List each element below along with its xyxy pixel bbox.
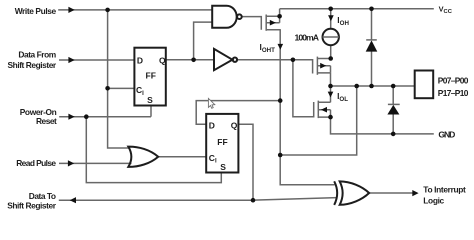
- arrow read pulse input: [68, 160, 74, 166]
- arrow data to output (left): [70, 197, 76, 203]
- wire Data To Shift Register line: [59, 198, 337, 201]
- svg-text:Read Pulse: Read Pulse: [16, 158, 56, 168]
- NAND gate U1: [212, 6, 237, 28]
- arrow to interrupt logic: [412, 190, 418, 196]
- current source chord: [323, 36, 339, 38]
- port box P07-P00: [415, 71, 434, 99]
- svg-text:FF: FF: [217, 137, 227, 147]
- svg-text:FF: FF: [146, 71, 156, 81]
- arrow I_OL current: [328, 92, 334, 98]
- junction dot diode D1 anode: [369, 84, 374, 89]
- wire POR down-leg to FF2 S: [86, 117, 221, 183]
- svg-text:D: D: [137, 56, 143, 66]
- diode D2 cathode bar: [388, 103, 400, 105]
- transistor Q2 body arrow: [320, 63, 326, 69]
- arrow I_OH current: [328, 15, 334, 21]
- svg-text:100mA: 100mA: [295, 33, 320, 43]
- wire FF1 Q to inverter input: [166, 59, 215, 61]
- inverter U2: [214, 49, 232, 70]
- svg-text:P07–P00: P07–P00: [438, 75, 469, 85]
- svg-text:Shift Register: Shift Register: [8, 60, 57, 70]
- svg-text:Logic: Logic: [423, 195, 444, 205]
- wire port line: [331, 85, 415, 87]
- transistor Q1 leads: [266, 16, 281, 29]
- XOR gate U4 input arc: [334, 181, 337, 205]
- junction dot Q3 source: [328, 115, 333, 120]
- arrow write pulse input: [68, 7, 74, 13]
- NAND output bubble: [237, 14, 242, 19]
- transistor Q3 body arrow: [321, 107, 327, 113]
- wire rail to current source top: [330, 9, 332, 29]
- wire GND clamp diode connections: [392, 86, 394, 134]
- diode D2 to GND: [387, 105, 399, 115]
- transistor Q1 body arrow: [270, 20, 276, 26]
- wire gate node to Q2 gate: [293, 60, 313, 74]
- wire current source bottom to Q2 drain: [330, 45, 332, 58]
- wire FF2 D tap from pin net: [196, 101, 280, 125]
- svg-text:S: S: [220, 162, 226, 172]
- flip-flop FF2 box: [206, 114, 238, 173]
- arrow POR input: [68, 114, 74, 120]
- wire FF1 Q up to NAND input 2: [194, 22, 213, 60]
- arrow data from input: [68, 57, 74, 63]
- arrow I_OHT current: [278, 44, 284, 50]
- transistor Q2 channel bar: [316, 57, 318, 75]
- wire inverter output to gate node: [237, 59, 293, 61]
- junction dot POR: [84, 114, 89, 119]
- wire Write Pulse lead: [58, 9, 212, 11]
- wire XOR output to interrupt arrow: [369, 192, 413, 194]
- svg-text:S: S: [147, 95, 153, 105]
- OR gate U3: [128, 147, 158, 167]
- inverter bubble: [233, 58, 237, 62]
- junction dot pin link: [278, 153, 283, 158]
- junction dot gate node: [291, 58, 296, 63]
- diode D1 cathode bar: [366, 39, 377, 41]
- junction dot data line: [251, 198, 256, 203]
- svg-text:Q: Q: [231, 120, 238, 130]
- svg-text:Shift Register: Shift Register: [7, 200, 57, 210]
- wire FF2 Q down to data line: [238, 124, 253, 200]
- wire Q1 source to VCC rail: [279, 9, 281, 16]
- wire Q2/Q3 junction to port line: [330, 73, 332, 102]
- wire Data From Shift Register to FF1 D: [59, 59, 134, 61]
- wire write-pulse drop to OR gate input 1: [108, 10, 130, 148]
- wire VCC clamp diode connections: [371, 9, 373, 86]
- svg-text:Reset: Reset: [36, 116, 57, 126]
- junction dot FF1 Q: [191, 58, 196, 63]
- wire Read Pulse to OR gate input 2: [59, 162, 132, 164]
- junction dot port node: [328, 84, 333, 89]
- wire gate node down to Q3 gate: [293, 60, 314, 117]
- wire NAND output to Q1 gate: [242, 17, 262, 30]
- transistor Q1 channel bar: [265, 15, 267, 31]
- wire pin link to port line: [280, 86, 357, 155]
- transistor Q3 channel bar: [317, 101, 319, 119]
- junction dot Q2 drain: [328, 56, 333, 61]
- wire OR output to FF2 C_I: [158, 156, 206, 158]
- flip-flop FF1 box: [134, 48, 165, 106]
- junction dot FF2 D tap: [278, 98, 283, 103]
- wire C_I tap of FF1 from write-pulse vertical: [108, 87, 135, 89]
- XOR gate U4 body: [340, 181, 369, 204]
- junction dot Q1 source: [277, 14, 282, 19]
- svg-text:Data From: Data From: [18, 50, 56, 60]
- svg-text:D: D: [209, 120, 215, 130]
- wire Q1 drain down pin-net vertical: [280, 30, 334, 185]
- transistor Q2 leads: [317, 59, 330, 73]
- junction dot port branch: [354, 84, 359, 89]
- svg-text:P17–P10: P17–P10: [438, 88, 469, 98]
- junction dot rail diode D1: [369, 7, 374, 12]
- wire Power-On Reset lead: [59, 116, 151, 118]
- svg-text:Q: Q: [159, 56, 166, 66]
- wire VCC rail: [280, 8, 434, 10]
- svg-text:GND: GND: [438, 130, 455, 140]
- junction dot rail current source: [328, 7, 333, 12]
- current source 100mA circle: [323, 29, 339, 45]
- diode D1 to VCC: [366, 40, 378, 51]
- junction dot diode D2 top: [391, 84, 396, 89]
- svg-text:To Interrupt: To Interrupt: [423, 185, 466, 195]
- wire POR up-leg to FF1 S: [150, 106, 152, 117]
- svg-text:Data To: Data To: [29, 191, 56, 201]
- mouse cursor: [208, 98, 214, 108]
- junction dot C_I tap: [105, 86, 110, 91]
- svg-text:Write Pulse: Write Pulse: [15, 6, 57, 16]
- wire Q3 source to GND line: [331, 117, 434, 134]
- junction dot write pulse: [105, 8, 110, 13]
- junction dot diode D2 GND: [391, 132, 396, 137]
- transistor Q3 leads: [318, 102, 330, 117]
